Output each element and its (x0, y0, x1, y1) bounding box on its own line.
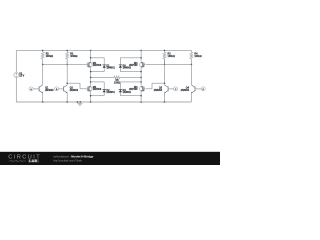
transistor Q1 (38, 86, 40, 91)
wire Q4-F4 base (195, 88, 201, 90)
wire M3-M4 node (140, 68, 142, 85)
svg-text:2N7000: 2N7000 (93, 64, 102, 67)
node flag F1 (29, 87, 33, 91)
resistor R2 (66, 50, 68, 52)
svg-text:100kΩ: 100kΩ (168, 55, 175, 58)
svg-text:100kΩ: 100kΩ (46, 55, 53, 58)
diode D3 (119, 64, 122, 66)
wire M4 source (140, 92, 142, 102)
wire load right (120, 76, 141, 78)
resistor R1 (42, 50, 44, 52)
wire Q3 emitter (164, 93, 166, 102)
wire gate M1 (43, 63, 86, 65)
svg-text:2N3904: 2N3904 (70, 89, 79, 92)
node flag F3 (174, 87, 178, 91)
svg-text:12 V: 12 V (19, 75, 24, 78)
diode D2 loop (91, 81, 105, 83)
junction top rail dots (42, 50, 44, 52)
resistor R5 load (114, 76, 120, 79)
svg-text:2N3904: 2N3904 (45, 89, 54, 92)
wire Q3-F3 base (168, 88, 173, 90)
wire left column (V1 bottom) (15, 77, 17, 102)
footer bar (0, 152, 220, 165)
svg-text:LAB: LAB (29, 159, 37, 163)
wire F1-Q1 base (33, 88, 39, 90)
svg-text:2N3904: 2N3904 (181, 89, 190, 92)
wire R3-Q3 collector (164, 59, 166, 85)
resistor R4 (190, 50, 192, 52)
wire R2-Q2 collector (66, 59, 68, 85)
voltage source V1 (14, 72, 19, 77)
wire F2-Q2 base (59, 88, 64, 90)
svg-text:1N4001: 1N4001 (106, 91, 115, 94)
diode D4 loop (120, 81, 141, 83)
transistor Q4 (194, 86, 196, 91)
svg-text:1N4001: 1N4001 (123, 91, 132, 94)
wire Q4 emitter (190, 93, 192, 102)
diode D3 loop (120, 57, 141, 59)
mosfet M4 (140, 86, 145, 91)
node flag F4 (201, 87, 205, 91)
svg-text:100kΩ: 100kΩ (70, 55, 77, 58)
diode D4 (119, 88, 122, 90)
transistor Q2 (63, 86, 65, 91)
wire load left (91, 76, 114, 78)
svg-text:1N4001: 1N4001 (106, 67, 115, 70)
wire Q2 emitter (66, 93, 68, 102)
wire M1-M2 node (90, 68, 92, 85)
wire Q1 emitter (42, 93, 44, 102)
transistor Q3 (167, 86, 169, 91)
svg-text:1N4001: 1N4001 (123, 67, 132, 70)
wire bottom rail (16, 101, 191, 103)
wire M1 drain (90, 50, 92, 61)
node flag F2 (55, 87, 59, 91)
resistor R3 (164, 50, 166, 52)
wire gate M3 (146, 63, 192, 65)
wire jog M4 gate (152, 82, 165, 84)
diode D2 (103, 88, 106, 90)
svg-text:100kΩ: 100kΩ (194, 55, 201, 58)
wire jog M2 gate (67, 82, 80, 84)
wire R1-Q1 collector (42, 64, 44, 84)
diode D1 loop (91, 57, 105, 59)
wire top rail (16, 49, 191, 51)
mosfet M3 (140, 62, 145, 67)
mosfet M1 (87, 62, 92, 67)
svg-text:100Ω: 100Ω (114, 81, 120, 84)
wire R4-Q4 collector (190, 64, 192, 84)
junction bottom rail dots (42, 101, 44, 103)
ground (77, 101, 79, 103)
mosfet M2 (87, 86, 92, 91)
svg-text:2N3904: 2N3904 (154, 89, 163, 92)
wire M3 drain (140, 50, 142, 61)
wire M2 source (90, 92, 92, 102)
svg-text:2N7000: 2N7000 (93, 88, 102, 91)
wire left column (V1 top) (15, 50, 17, 72)
diode D1 (103, 64, 106, 66)
